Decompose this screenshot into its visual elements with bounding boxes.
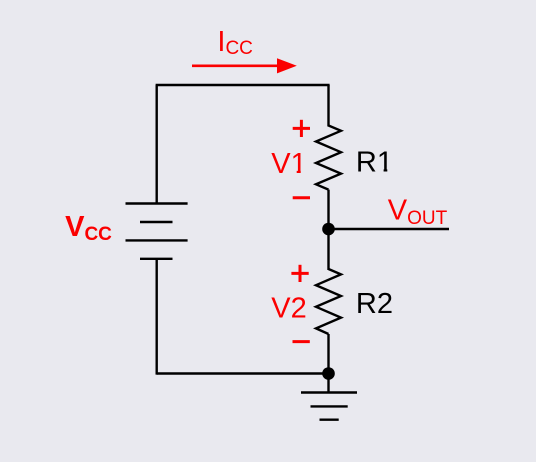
plus sign of V1 <box>293 120 310 137</box>
resistor R1 (zigzag) <box>316 126 341 190</box>
wire: Vcc positive terminal up (left vertical, top half) <box>155 85 157 204</box>
label R1 <box>356 147 393 179</box>
ground node junction dot <box>322 367 335 380</box>
wire: bottom horizontal from Vcc negative to ground node <box>157 372 329 374</box>
minus sign of V1 <box>293 196 310 199</box>
current arrow I_CC <box>192 58 297 73</box>
resistor R2 (zigzag) <box>316 269 341 334</box>
wire: top horizontal from Vcc to R1 <box>156 84 330 86</box>
wire: VOUT horizontal output lead <box>329 228 450 230</box>
battery Vcc <box>126 204 188 259</box>
svg-text:V2: V2 <box>271 293 306 325</box>
wire: ground stub below node <box>327 374 329 393</box>
wire: R1 bottom to node VOUT <box>327 190 329 229</box>
plus sign of V2 <box>291 265 308 282</box>
svg-text:R1: R1 <box>356 147 393 179</box>
minus sign of V2 <box>293 340 310 343</box>
node VOUT junction dot <box>322 223 335 236</box>
svg-text:R2: R2 <box>356 288 393 320</box>
wire: node VOUT down to R2 top <box>327 229 329 270</box>
wire: Vcc negative terminal down (left vertical, bottom half) <box>155 259 157 375</box>
svg-text:V1: V1 <box>271 148 306 180</box>
wire: R2 bottom to ground node <box>327 334 329 374</box>
ground <box>301 393 357 420</box>
wire: right vertical down to R1 top <box>327 85 329 127</box>
label V1 <box>271 148 306 180</box>
